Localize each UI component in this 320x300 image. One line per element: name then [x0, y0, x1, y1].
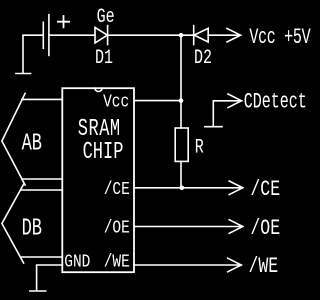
svg-text:/CE: /CE [250, 177, 280, 202]
svg-text:/CE: /CE [104, 179, 130, 200]
IC U1 SRAM chip body [62, 88, 134, 272]
svg-text:/WE: /WE [104, 252, 130, 273]
wire D2 to Vcc arrow [208, 34, 240, 36]
resistor R [175, 128, 188, 161]
svg-text:D2: D2 [194, 47, 212, 70]
wire D1 to D2 [108, 34, 194, 36]
junction node (top) [179, 33, 184, 38]
wire CDetect with ground stem [213, 101, 241, 127]
wire node down to resistor [180, 35, 182, 128]
svg-text:D1: D1 [95, 47, 113, 70]
wire GND pin to ground [37, 265, 63, 290]
svg-text:/OE: /OE [250, 216, 280, 241]
wire battery to diode D1 [49, 34, 95, 36]
chip notch [95, 88, 102, 91]
svg-text:Ge: Ge [97, 6, 115, 29]
wire battery negative to ground [23, 35, 43, 72]
svg-text:AB: AB [22, 131, 42, 157]
ground (CDetect) [205, 126, 222, 128]
diode D1 [95, 26, 108, 45]
svg-text:CDetect: CDetect [244, 89, 307, 115]
svg-text:GND: GND [64, 252, 90, 273]
svg-text:/OE: /OE [104, 218, 130, 239]
wire resistor to /CE line [180, 161, 182, 187]
junction node (/CE row) [180, 186, 185, 191]
arrow Vcc +5V [227, 29, 241, 42]
svg-text:Vcc +5V: Vcc +5V [249, 24, 311, 50]
junction node (Vcc pin row) [179, 98, 184, 103]
svg-text:CHIP: CHIP [83, 140, 124, 166]
arrow /OE [229, 220, 243, 234]
arrow CDetect [228, 94, 242, 108]
ground (battery) [16, 73, 31, 75]
battery B1 [43, 15, 69, 56]
ground (chip GND) [30, 290, 46, 292]
arrow /WE [228, 258, 242, 272]
diode D2 [194, 26, 209, 45]
wire /WE [134, 264, 241, 266]
svg-text:DB: DB [22, 216, 42, 242]
wire /OE [134, 226, 243, 228]
bus AB [2, 93, 62, 185]
svg-text:R: R [195, 137, 204, 160]
wire /CE [134, 187, 243, 189]
svg-text:Vcc: Vcc [103, 92, 129, 113]
svg-text:/WE: /WE [249, 254, 279, 279]
wire chip Vcc pin [134, 100, 181, 102]
bus DB [2, 184, 62, 263]
arrow /CE [229, 181, 243, 195]
